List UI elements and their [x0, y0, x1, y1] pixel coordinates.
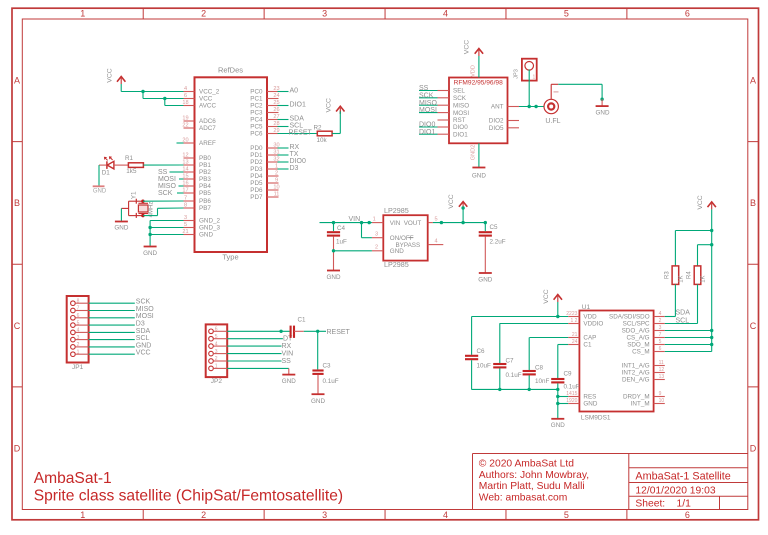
MCU pin 22 ADC7 [184, 127, 195, 129]
net label DIO0 [278, 161, 289, 163]
LP2985 pin 3 ON/OFF [372, 237, 383, 239]
svg-text:MISO: MISO [158, 183, 176, 190]
svg-text:DIO0: DIO0 [290, 158, 306, 165]
svg-text:10uF: 10uF [477, 363, 492, 370]
wire junction down to pin18 [164, 99, 166, 106]
wire VCC rail down [711, 231, 713, 352]
wire JP2 pin2 (SS) [227, 360, 281, 362]
svg-text:VCC: VCC [543, 289, 550, 303]
svg-text:VCC: VCC [107, 68, 114, 82]
svg-text:GND: GND [478, 277, 492, 284]
svg-text:PC2: PC2 [250, 103, 263, 110]
wire D1 to ground [98, 165, 100, 186]
svg-text:2.2uF: 2.2uF [490, 238, 506, 245]
svg-text:C7: C7 [506, 358, 515, 365]
svg-text:PC6: PC6 [250, 131, 263, 138]
wire C7 drop [499, 324, 501, 364]
wire C7 to bus [499, 368, 501, 389]
svg-text:13: 13 [659, 374, 665, 380]
svg-text:INT2_A/G: INT2_A/G [622, 370, 650, 377]
svg-text:4: 4 [184, 86, 187, 92]
svg-text:TX: TX [290, 151, 299, 158]
LSM9DS1 pin CAP [568, 337, 579, 339]
node junction SDO_M [710, 343, 713, 346]
svg-text:1: 1 [215, 364, 218, 370]
svg-text:Web: ambasat.com: Web: ambasat.com [479, 492, 568, 503]
title block [473, 453, 748, 455]
svg-text:PB1: PB1 [199, 162, 211, 169]
svg-text:PD6: PD6 [250, 187, 263, 194]
wire C9 drop [557, 345, 559, 379]
MCU pin 4 VCC_2 [184, 91, 195, 93]
connector U.FL [544, 99, 558, 113]
svg-text:DIO5: DIO5 [489, 125, 504, 132]
svg-text:VOUT: VOUT [404, 220, 422, 227]
wire SDO_A/G [665, 330, 712, 332]
svg-text:PB2: PB2 [199, 169, 211, 176]
LSM9DS1 pin RES [568, 396, 579, 398]
MCU pin 13 PB1 [184, 164, 195, 166]
svg-text:RX: RX [290, 144, 300, 151]
wire JP1 SCL [89, 339, 135, 341]
svg-text:Y1: Y1 [131, 191, 138, 199]
svg-text:GND: GND [143, 250, 157, 257]
MCU pin 31 PD1 [267, 154, 279, 156]
MCU pin 12 PB0 [184, 157, 195, 159]
svg-text:0.1uF: 0.1uF [506, 372, 522, 379]
svg-text:24: 24 [273, 93, 279, 99]
MCU pin 16 PB4 [184, 185, 195, 187]
MCU pin 17 PB5 [184, 192, 195, 194]
svg-text:6: 6 [685, 510, 690, 520]
svg-text:6: 6 [184, 93, 187, 99]
MCU pin 28 PC5 [267, 126, 279, 128]
svg-text:SDA: SDA [676, 310, 691, 317]
node junction VCC pin6 [163, 97, 166, 100]
wire VOUT to C5 [433, 222, 485, 224]
node junction C7 bus [498, 388, 501, 391]
svg-text:VCC: VCC [464, 40, 471, 54]
LP2985 pin 5 VOUT [428, 222, 433, 224]
svg-text:Sprite class satellite (ChipSa: Sprite class satellite (ChipSat/Femtosat… [34, 488, 343, 505]
resonator Y1 4MHz [129, 200, 143, 202]
MCU pin 14 PB2 [184, 171, 195, 173]
capacitor C5 2.2uF [479, 231, 492, 233]
svg-text:5: 5 [77, 320, 80, 326]
wire JP1 D3 [89, 324, 135, 326]
svg-text:GND: GND [311, 398, 325, 405]
node junction C9 bus [556, 388, 559, 391]
wire SDA [665, 316, 676, 318]
capacitor C1 [290, 326, 292, 338]
svg-text:SCK: SCK [419, 92, 434, 99]
node junction C4 [332, 221, 335, 224]
svg-text:PC5: PC5 [250, 124, 263, 131]
MCU pin 26 PC3 [267, 112, 279, 114]
MCU pin 11 PD7 [267, 196, 279, 198]
wire JP1 VCC [89, 353, 135, 355]
svg-text:PB3: PB3 [199, 176, 211, 183]
svg-text:1k5: 1k5 [126, 168, 137, 175]
wire SCL [665, 323, 698, 325]
net label MISO (RFM) [419, 104, 438, 106]
svg-text:C6: C6 [477, 348, 486, 355]
svg-text:CS_A/G: CS_A/G [626, 335, 649, 342]
svg-text:B: B [14, 198, 20, 208]
svg-text:RESET: RESET [327, 329, 351, 336]
MCU pin 21 GND [184, 234, 195, 236]
JP2 pin 6 [209, 329, 214, 334]
net label RESET [278, 133, 318, 135]
svg-text:3: 3 [659, 325, 662, 331]
LSM9DS1 pin DEN_A/G [654, 379, 665, 381]
resistor R1 1k5 [128, 163, 143, 168]
JP1 pin 2 (GND) [71, 345, 76, 350]
svg-text:RES: RES [583, 394, 596, 401]
capacitor C4 1uF [327, 231, 340, 233]
MCU pin 10 PD6 [267, 189, 279, 191]
svg-text:GND: GND [390, 248, 404, 255]
svg-text:10: 10 [273, 184, 279, 190]
node junction VCC pin4 [141, 90, 144, 93]
net label SDA [278, 119, 289, 121]
RFM pin ANT [508, 106, 520, 108]
MCU pin 7 PB6 [184, 200, 195, 202]
svg-text:PC3: PC3 [250, 110, 263, 117]
resistor R4 1K [694, 266, 701, 285]
svg-text:SEL: SEL [453, 88, 465, 95]
svg-text:GND: GND [327, 274, 341, 281]
svg-text:CAP: CAP [583, 335, 596, 342]
wire JP1 MOSI [89, 317, 135, 319]
ground symbol (D1) [93, 185, 105, 187]
wire C4 bottom to ground [333, 237, 335, 271]
svg-text:1: 1 [80, 510, 85, 520]
svg-text:SDO_A/G: SDO_A/G [622, 328, 650, 335]
svg-text:MOSI: MOSI [136, 313, 154, 320]
IMU U1 LSM9DS1 body [579, 311, 653, 412]
net label DIO0 (RFM) [419, 126, 438, 128]
wire R3 top [674, 231, 676, 266]
wire C1 to RESET [294, 330, 304, 332]
wire resonator bottom to PB7 [143, 215, 158, 217]
svg-text:SDA: SDA [136, 328, 151, 335]
wire CS_M [665, 351, 712, 353]
wire resonator top to PB6 [143, 200, 184, 202]
svg-text:12: 12 [659, 367, 665, 373]
svg-text:RX: RX [282, 343, 292, 350]
capacitor C6 10uF [465, 355, 478, 357]
svg-text:1K: 1K [679, 275, 685, 282]
svg-text:SS: SS [282, 358, 292, 365]
RFM pin DIO2 [508, 120, 520, 122]
svg-text:C9: C9 [564, 370, 573, 377]
svg-text:12/01/2020 19:03: 12/01/2020 19:03 [635, 485, 715, 496]
svg-text:AVCC: AVCC [199, 103, 216, 110]
resistor R2 10k [317, 131, 332, 136]
svg-text:2: 2 [201, 510, 206, 520]
wire C6 to bus [471, 360, 473, 389]
svg-text:PD1: PD1 [250, 152, 263, 159]
wire C8 drop [528, 338, 530, 371]
LSM9DS1 pin CS_A/G [654, 337, 665, 339]
svg-text:Sheet:: Sheet: [635, 499, 665, 510]
MCU pin 9 PD5 [267, 182, 279, 184]
svg-text:C: C [750, 321, 757, 331]
svg-text:4MHz: 4MHz [148, 202, 154, 218]
net label SS (RFM) [419, 90, 438, 92]
svg-text:LP2985: LP2985 [384, 260, 409, 269]
svg-text:LP2985: LP2985 [384, 206, 409, 215]
MCU pin 8 PB7 [184, 207, 195, 209]
svg-text:4: 4 [215, 341, 218, 347]
LED D1 [106, 161, 108, 169]
MCU pin 30 PD0 [267, 147, 279, 149]
node junction CS_A/G [710, 336, 713, 339]
wire RES [558, 396, 568, 398]
svg-text:0.1uF: 0.1uF [323, 378, 339, 385]
svg-text:PB6: PB6 [199, 198, 211, 205]
svg-text:2: 2 [215, 356, 218, 362]
wire JP1 SDA [89, 331, 135, 333]
svg-text:C1: C1 [583, 342, 592, 349]
RFM pin DIO0 [438, 126, 450, 128]
svg-text:VIN: VIN [282, 351, 294, 358]
svg-text:C8: C8 [535, 365, 544, 372]
svg-text:MISO: MISO [453, 102, 469, 109]
svg-text:VDD: VDD [583, 314, 597, 321]
svg-text:PD3: PD3 [250, 166, 263, 173]
JP2 pin 2 [209, 359, 214, 364]
svg-text:© 2020 AmbaSat Ltd: © 2020 AmbaSat Ltd [479, 459, 574, 470]
MCU pin 6 VCC [184, 98, 195, 100]
wire C8 to bus [528, 375, 530, 389]
svg-text:GND: GND [472, 172, 486, 179]
svg-text:MOSI: MOSI [158, 176, 176, 183]
wire C5 bottom to ground [484, 237, 486, 273]
svg-text:PD5: PD5 [250, 180, 263, 187]
ground symbol (U.FL) [596, 105, 609, 107]
net label SCK (RFM) [419, 97, 438, 99]
JP2 pin 1 [209, 366, 214, 371]
svg-text:C1: C1 [298, 317, 307, 324]
capacitor C7 0.1uF [493, 363, 506, 365]
RFM pin MISO [438, 104, 450, 106]
svg-text:VCC: VCC [136, 350, 151, 357]
wire R1 to MCU pin13 [143, 164, 183, 166]
svg-text:U1: U1 [582, 304, 591, 311]
svg-text:RST: RST [453, 117, 466, 124]
svg-text:VCC: VCC [325, 98, 332, 112]
svg-text:R3: R3 [664, 271, 670, 279]
JP1 pin 1 (VCC) [71, 352, 76, 357]
wire to ON/OFF pin [361, 223, 363, 238]
LSM9DS1 pin CS_M [654, 351, 665, 353]
MCU pin 20 AREF [184, 142, 195, 144]
svg-text:A: A [750, 76, 756, 86]
RFM pin RST [438, 119, 450, 121]
JP1 pin 4 (SDA) [71, 330, 76, 335]
svg-text:DIO0: DIO0 [419, 122, 435, 129]
svg-text:19: 19 [182, 115, 188, 121]
ground symbol (LSM9DS1) [551, 418, 564, 420]
node GND_3 junction [148, 226, 151, 229]
node junction RESET/C3 [316, 330, 319, 333]
svg-text:A: A [14, 76, 20, 86]
LSM9DS1 pin C1 [568, 344, 579, 346]
wire C6 drop [471, 317, 473, 355]
wire JP2 pin5 (DTR) [227, 338, 283, 340]
node junction VOUT [440, 221, 443, 224]
svg-text:Martin Platt, Sudu Malli: Martin Platt, Sudu Malli [479, 481, 585, 492]
node junction SDO_A/G [710, 329, 713, 332]
net label MOSI (RFM) [419, 112, 438, 114]
svg-text:DRDY_M: DRDY_M [623, 394, 650, 401]
wire JP2 pin4 (RX) [227, 345, 281, 347]
svg-text:3: 3 [184, 215, 187, 221]
ground symbol (MCU) [144, 246, 157, 248]
MCU IC RefDes (ATMega328) body [195, 77, 268, 252]
wire R3 branch [675, 230, 711, 232]
LSM9DS1 pin SCL/SPC [654, 323, 665, 325]
wire VCC to pin4 [121, 91, 183, 93]
svg-text:GND: GND [114, 225, 128, 232]
svg-text:10nF: 10nF [535, 378, 550, 385]
ground symbol (Y1) [115, 221, 128, 223]
MCU pin 2 PD4 [267, 175, 279, 177]
svg-text:4: 4 [77, 328, 80, 334]
svg-text:DIO1: DIO1 [453, 131, 468, 138]
svg-text:VIN: VIN [390, 220, 401, 227]
svg-text:D3: D3 [290, 165, 299, 172]
svg-text:Type: Type [222, 252, 238, 261]
svg-text:5: 5 [184, 222, 187, 228]
wire C9 to bus [557, 383, 559, 418]
connector JP2 body [206, 324, 228, 377]
RFM pin SEL [438, 90, 450, 92]
ground symbol (RFM) [472, 167, 485, 169]
wire C3 bottom to ground [317, 375, 319, 394]
svg-text:7: 7 [184, 195, 187, 201]
svg-text:ADC6: ADC6 [199, 118, 216, 125]
svg-text:RFM92/95/96/98: RFM92/95/96/98 [454, 79, 503, 86]
svg-text:SCL: SCL [136, 335, 150, 342]
svg-text:26: 26 [273, 107, 279, 113]
svg-text:DIO2: DIO2 [489, 118, 504, 125]
svg-text:MOSI: MOSI [453, 110, 469, 117]
LSM9DS1 pin DRDY_M [654, 396, 665, 398]
svg-text:JP2: JP2 [211, 378, 223, 385]
net label SCL [278, 126, 289, 128]
svg-text:U.FL: U.FL [545, 118, 560, 125]
svg-text:3: 3 [322, 510, 327, 520]
JP2 pin 5 [209, 336, 214, 341]
ground symbol (C3) [312, 393, 325, 395]
svg-text:VDD: VDD [471, 65, 477, 77]
svg-text:VDDIO: VDDIO [583, 321, 603, 328]
svg-text:3: 3 [322, 9, 327, 19]
svg-text:8: 8 [184, 202, 187, 208]
svg-text:Authors: John Mowbray,: Authors: John Mowbray, [479, 470, 589, 481]
svg-text:21: 21 [572, 332, 578, 338]
svg-text:R1: R1 [125, 155, 134, 162]
svg-text:ADC7: ADC7 [199, 125, 216, 132]
svg-text:D1: D1 [102, 170, 111, 177]
node junction shield gnd [600, 98, 603, 101]
svg-text:D: D [14, 443, 21, 453]
node junction R3 branch [710, 229, 713, 232]
wire U.FL shield to ground [558, 83, 602, 85]
svg-text:6: 6 [77, 313, 80, 319]
svg-text:PC4: PC4 [250, 117, 263, 124]
svg-text:6: 6 [215, 327, 218, 333]
svg-text:B: B [750, 198, 756, 208]
svg-text:8: 8 [77, 298, 80, 304]
wire VDD rail [472, 316, 569, 318]
svg-text:VCC_2: VCC_2 [199, 89, 220, 96]
svg-text:VCC: VCC [697, 195, 704, 209]
wire VCC down to VDD row [557, 309, 559, 317]
MCU pin 24 PC1 [267, 98, 279, 100]
wire R2 to VCC [332, 133, 340, 135]
svg-text:5: 5 [659, 339, 662, 345]
svg-text:MISO: MISO [419, 100, 437, 107]
power symbol VCC (LSM9DS1) [554, 295, 562, 300]
LSM9DS1 pin INT2_A/G [654, 372, 665, 374]
power symbol VCC (pullups) [708, 202, 716, 207]
wire R4 bottom to SCL [697, 284, 699, 323]
svg-text:RESET: RESET [289, 129, 313, 136]
wire wire C4 top [333, 223, 335, 232]
svg-text:PC0: PC0 [250, 89, 263, 96]
wire R4 top [697, 245, 699, 266]
ground symbol (C5) [479, 272, 492, 274]
MCU pin 3 GND_2 [184, 220, 195, 222]
wire JP2 pin3 (VIN) [227, 353, 281, 355]
LP2985 pin 4 BYPASS [428, 244, 444, 246]
wire C5 top [484, 223, 486, 232]
connector JP3 [522, 59, 537, 81]
svg-text:SS: SS [419, 85, 429, 92]
JP1 pin 5 (D3) [71, 323, 76, 328]
node junction GND pin [556, 402, 559, 405]
wire VDDIO rail [500, 323, 569, 325]
node resonator bottom junction [141, 214, 144, 217]
regulator U? LP2985 body [383, 215, 427, 260]
wire ground bus [472, 388, 558, 390]
svg-text:RefDes: RefDes [218, 66, 243, 75]
svg-text:SDA: SDA [290, 116, 305, 123]
svg-text:24: 24 [572, 339, 578, 345]
svg-text:2: 2 [375, 245, 378, 251]
MCU pin 29 PC6 [267, 133, 279, 135]
svg-text:2: 2 [659, 318, 662, 324]
RFM pin SCK [438, 97, 450, 99]
wire RFM GND to ground [478, 143, 480, 167]
wire JP1 GND [89, 346, 135, 348]
svg-text:DIO1: DIO1 [290, 102, 306, 109]
LSM9DS1 pin INT1_A/G [654, 365, 665, 367]
svg-text:GND: GND [93, 189, 107, 195]
svg-text:6: 6 [685, 9, 690, 19]
LP2985 pin 2 GND [372, 250, 383, 252]
wire CAP rail [529, 337, 568, 339]
svg-text:SDA/SDI/SDO: SDA/SDI/SDO [609, 314, 650, 321]
svg-text:C3: C3 [323, 362, 332, 369]
node junction JP3/ANT [528, 105, 531, 108]
MCU pin 23 PC0 [267, 91, 279, 93]
JP1 pin 6 (MOSI) [71, 316, 76, 321]
